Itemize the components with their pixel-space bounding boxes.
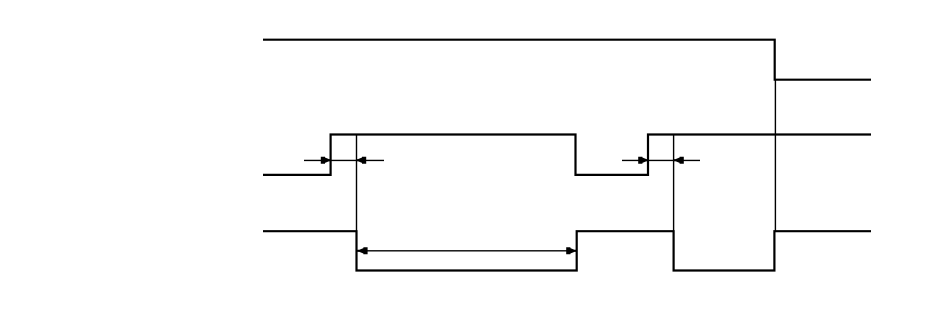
arrowhead pointing left at reference line x=356.5 <box>356 157 366 164</box>
thin vertical reference line at x=775.2 from top waveform low level down to bottom waveform corner <box>774 80 776 231</box>
dimension line 1 (setup/hold interval) horizontal at y=160.2 <box>304 159 384 161</box>
thin vertical reference line at x=674 from middle-high level down to bottom waveform corner <box>673 135 675 232</box>
dimension line 3 (pulse width double arrow) horizontal at y=250.8 <box>358 250 577 252</box>
arrowhead pointing left at bottom-waveform falling edge x=357.5 <box>358 247 368 254</box>
waveform 1 (top signal): high then falling edge at x=774.7 <box>263 40 871 80</box>
arrowhead pointing right at middle-waveform rising edge x=648 <box>638 157 648 164</box>
waveform 2 (middle signal): low, rise 330.6, fall 575.5, rise 648, high to end <box>263 135 871 175</box>
thin vertical reference line at x=356.5 from middle-high level down to bottom waveform corner <box>356 135 358 232</box>
arrowhead pointing right at middle-waveform rising edge x=330.6 <box>321 157 331 164</box>
waveform 3 (bottom signal): high, fall 356.5, rise 576.7, fall 673.6, rise 774.4, high to end <box>263 231 871 270</box>
dimension line 2 (setup/hold interval) horizontal at y=160.2 <box>622 159 700 161</box>
arrowhead pointing left at reference line x=674 <box>674 157 684 164</box>
arrowhead pointing right at bottom-waveform rising edge x=576 <box>566 247 576 254</box>
